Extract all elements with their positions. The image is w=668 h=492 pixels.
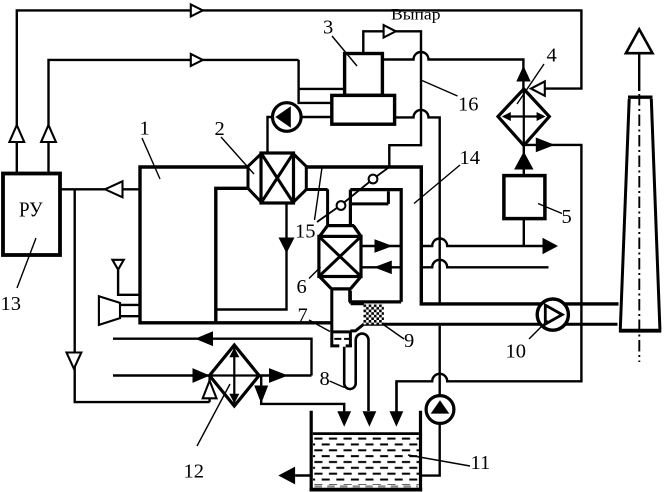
svg-text:15: 15 <box>295 221 316 243</box>
svg-text:РУ: РУ <box>19 198 43 222</box>
svg-text:5: 5 <box>562 206 572 228</box>
svg-text:12: 12 <box>184 461 205 483</box>
svg-text:16: 16 <box>458 94 479 116</box>
svg-text:Выпар: Выпар <box>391 7 441 24</box>
svg-text:13: 13 <box>1 293 22 315</box>
svg-text:9: 9 <box>404 330 414 352</box>
svg-text:6: 6 <box>297 276 307 298</box>
svg-text:3: 3 <box>323 17 333 39</box>
svg-text:1: 1 <box>140 118 150 140</box>
svg-text:14: 14 <box>460 147 481 169</box>
svg-text:11: 11 <box>471 452 491 474</box>
svg-text:7: 7 <box>298 305 308 327</box>
svg-text:2: 2 <box>215 118 225 140</box>
svg-text:8: 8 <box>320 368 330 390</box>
svg-text:10: 10 <box>506 341 527 363</box>
svg-text:4: 4 <box>547 45 557 67</box>
